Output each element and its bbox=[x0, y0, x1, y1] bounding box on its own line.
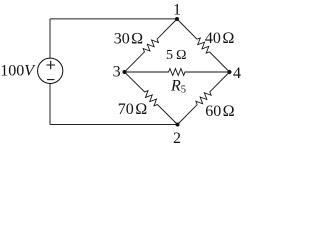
plus terminal mark bbox=[47, 61, 56, 69]
resistor 60ohm between node 4 and node 2 bbox=[178, 72, 230, 125]
svg-text:4: 4 bbox=[233, 65, 241, 82]
svg-text:3: 3 bbox=[113, 64, 121, 81]
svg-text:70 Ω: 70 Ω bbox=[118, 101, 148, 118]
resistor 70ohm between node 3 and node 2 bbox=[125, 72, 178, 125]
svg-text:R5: R5 bbox=[170, 78, 186, 96]
resistor 30ohm between node 1 and node 3 bbox=[125, 19, 178, 72]
wire bottom: corner to node 2 bbox=[50, 124, 178, 126]
node 2 junction dot bbox=[176, 123, 180, 127]
svg-text:30 Ω: 30 Ω bbox=[114, 31, 144, 48]
wire top: corner to node 1 bbox=[50, 18, 177, 20]
svg-text:5 Ω: 5 Ω bbox=[166, 48, 187, 63]
node 1 junction dot bbox=[175, 17, 179, 21]
wire left upper: top corner to source + terminal bbox=[49, 19, 51, 58]
svg-text:40 Ω: 40 Ω bbox=[205, 30, 235, 47]
svg-text:2: 2 bbox=[173, 130, 181, 145]
node 4 junction dot bbox=[228, 70, 232, 74]
resistor R5 5ohm between node 3 and node 4 bbox=[125, 69, 230, 76]
svg-text:60 Ω: 60 Ω bbox=[205, 103, 235, 120]
svg-text:1: 1 bbox=[173, 1, 181, 18]
node 3 junction dot bbox=[123, 70, 127, 74]
svg-text:100V: 100V bbox=[0, 62, 36, 79]
resistor 40ohm between node 1 and node 4 bbox=[177, 19, 230, 72]
minus terminal mark bbox=[47, 79, 55, 81]
voltage source V1 circle bbox=[38, 58, 63, 83]
wire left lower: source - terminal to bottom corner bbox=[49, 83, 51, 124]
